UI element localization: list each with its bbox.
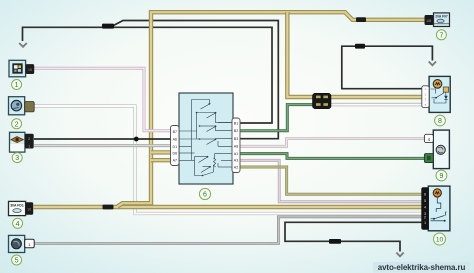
circled 5 [12,255,22,265]
svg-text:A8: A8 [234,145,238,149]
connector of relay 10 [421,187,429,229]
wire: green from block pin B2 to connector X [238,105,313,131]
ground arrow bottom [396,253,403,257]
svg-text:B3: B3 [234,137,238,141]
connector pin 4 of pump 9 [424,134,433,142]
circled 8 [435,115,446,126]
block 6 left pin strip [171,126,180,166]
wire: pale pink from block pin A8 to pump 9 pin 4 [238,139,424,147]
green connector pin of pump 9 [424,154,433,163]
wire: tan branch down to connector X and relay 8 [287,12,422,97]
connector of component 4 [26,202,34,214]
component 1 instrument cluster [9,60,26,77]
svg-text:B7: B7 [173,130,177,134]
svg-text:Ш5: Ш5 [427,19,432,23]
circled 9 [436,170,447,181]
wire: olive from block pin A2 to relay 10 pin 6 [238,167,422,194]
circled 3 [12,153,22,163]
wire: black ground rail (block pin B3, upper run) and stub to ground [23,21,279,139]
svg-text:10: 10 [27,207,31,211]
connector of component 2 [25,102,35,112]
block 6 internal contacts [180,100,233,176]
wire: gray from sensor 3 pin 1 to block pin D1 [34,144,172,147]
svg-text:3: 3 [15,155,19,162]
component 5 sensor motor [9,235,25,252]
svg-text:B1: B1 [234,121,238,125]
wire: black from sensor 3 pin 2 to block pin A6 [34,138,172,140]
svg-text:A7: A7 [173,159,177,163]
svg-text:avto-elektrika-shema.ru: avto-elektrika-shema.ru [378,263,466,272]
component 8 relay [429,76,450,112]
circled 1 [12,80,22,90]
svg-text:15: 15 [28,68,32,72]
connector of component 5 [25,239,35,248]
wire: tan stub to block pin D6 [151,150,172,154]
component 3 sensor with winged icon [10,132,25,152]
block 6 right pin strip [232,118,240,173]
svg-text:A3: A3 [234,159,238,163]
ground arrow right [429,62,436,66]
svg-text:B2: B2 [234,129,238,133]
svg-text:8: 8 [438,118,442,125]
svg-text:9: 9 [439,173,443,180]
component 2 speed sensor gauge [9,97,25,115]
svg-text:20A F07: 20A F07 [435,15,448,19]
connector of component 3 [25,134,34,149]
svg-text:A6: A6 [173,137,177,141]
svg-text:7: 7 [439,32,443,39]
wire: mauve from block pin A3 to relay 10 pin 5 [238,160,422,202]
svg-text:1: 1 [15,82,19,89]
component 4 fuse 30A FD1 [9,201,26,215]
watermark avto-elektrika-shema.ru [373,262,470,273]
wire: green from block pin A1 to pump 9 green pin [238,154,424,159]
circled 6 [199,188,210,199]
svg-text:5: 5 [424,199,426,203]
svg-text:2: 2 [424,216,426,220]
circled 10 [434,233,446,245]
svg-text:5: 5 [15,258,19,265]
wire: black ground of relay 10 pin 1 [285,222,422,251]
connector X harness joint [313,93,332,108]
ground arrow top-left [19,43,27,47]
svg-text:D6: D6 [172,151,177,155]
svg-text:6: 6 [203,192,207,199]
svg-text:A2: A2 [234,165,238,169]
component 9 fuel pump [433,130,449,169]
svg-text:6: 6 [424,192,426,196]
wire: white from connector X to relay 8 [330,103,422,106]
wire: tan ignition feed main run (fuse 4 to relay 10 pin 4) [34,205,422,209]
wire: tan riser with elbow to top rail [118,12,425,206]
wire: white from speedometer 2 to relay 10 pin 3 via junction [34,106,422,214]
splice on relay 10 ground wire [329,239,341,244]
wire: pink from cluster 1 to block pin B7 [34,68,172,130]
svg-text:1: 1 [28,144,30,148]
svg-text:1: 1 [424,221,426,225]
circled 4 [13,218,23,228]
splice on relay 8 ground wire [355,44,365,49]
circled 7 [436,30,446,40]
circled 2 [12,119,22,129]
junction splice on sensor 3 black wire [134,137,139,142]
connector of component 1 [26,64,35,74]
svg-text:4: 4 [424,206,426,210]
wire: black ground rail (block pin B1, lower run) [112,27,272,123]
connector of relay 8 [422,86,429,108]
component 7 fuse 30A F07 [425,13,450,27]
splice on tan top rail [356,17,366,22]
svg-text:10: 10 [436,237,444,244]
block 6 ignition switch body [179,93,233,184]
svg-text:2: 2 [28,137,30,141]
wire: gray from sensor 5 to relay 10 pin 2 [34,217,422,244]
splice on tan wire near fuse 4 [103,205,114,210]
wire: tan stub to block pin A7 [151,158,172,162]
component 10 relay [428,186,450,231]
svg-text:2: 2 [15,121,19,128]
svg-text:4: 4 [16,221,20,228]
svg-text:A1: A1 [234,152,238,156]
svg-text:D1: D1 [172,145,177,149]
splice on black ground wire [102,24,114,29]
wire: black ground loop of relay 8 [342,46,433,88]
svg-text:30A FD1: 30A FD1 [10,204,24,208]
